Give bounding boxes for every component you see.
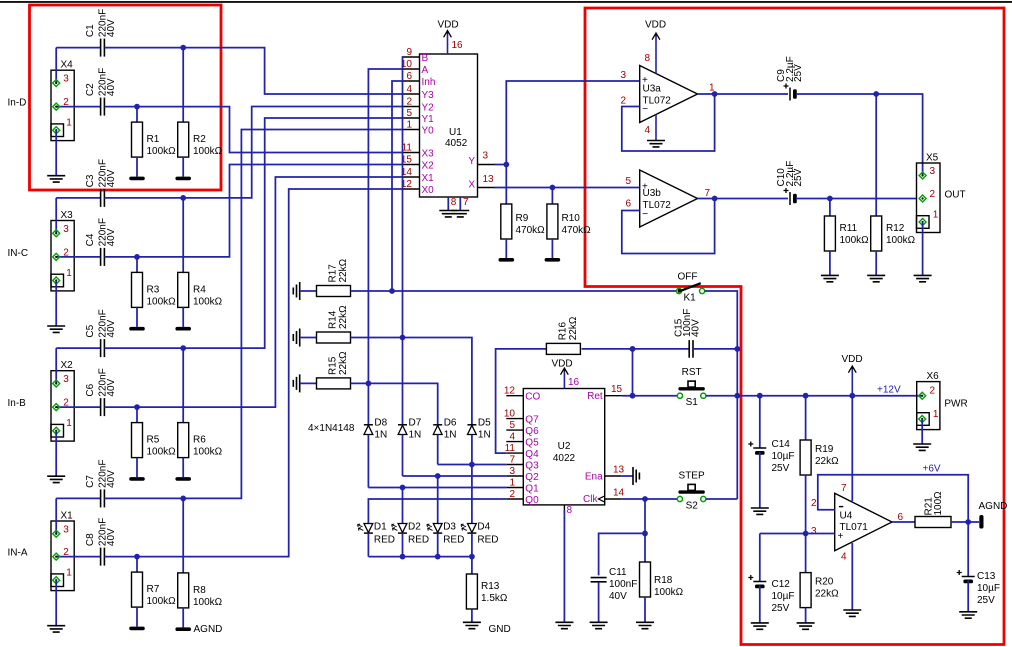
wire S2 right up chain — [706, 498, 737, 500]
wire — [104, 497, 183, 499]
svg-text:X3: X3 — [61, 210, 74, 221]
LED D2 RED — [398, 524, 407, 533]
red highlight polygon (right output + power sections) — [585, 8, 1004, 645]
svg-text:22kΩ: 22kΩ — [338, 351, 349, 375]
svg-text:R9: R9 — [516, 213, 529, 224]
svg-text:TL071: TL071 — [840, 522, 869, 533]
svg-text:Q6: Q6 — [525, 426, 539, 437]
svg-text:C14: C14 — [772, 439, 791, 450]
svg-text:C13: C13 — [977, 571, 996, 582]
resistor R20 22k — [805, 534, 807, 573]
node Rst — [630, 393, 636, 399]
svg-text:D8: D8 — [374, 418, 387, 429]
svg-text:40V: 40V — [106, 378, 117, 396]
svg-text:OFF: OFF — [678, 272, 698, 283]
wire X3 pin1 to ground — [55, 281, 57, 327]
wire Q3 node down to LED D4 — [471, 465, 473, 524]
svg-text:25V: 25V — [977, 595, 995, 606]
svg-text:1N: 1N — [374, 430, 387, 441]
resistor R10 470k — [551, 188, 553, 205]
U1 pin 9 B — [403, 56, 420, 58]
svg-text:In-D: In-D — [8, 98, 27, 109]
U1 pin 11 X3 — [403, 152, 420, 154]
connector X4 (In-D input) — [51, 70, 74, 140]
svg-text:100kΩ: 100kΩ — [193, 296, 223, 307]
wire X3 pin2 row through C4 — [56, 256, 100, 258]
resistor R7 100k — [136, 557, 138, 573]
capacitor C12 10uF 25V — [759, 534, 761, 582]
node Q2/D6 — [435, 473, 441, 479]
svg-text:1: 1 — [66, 568, 72, 579]
wire U3b out to C10 — [715, 198, 788, 200]
svg-text:1N: 1N — [409, 430, 422, 441]
wire down to Rst row — [632, 349, 634, 396]
svg-text:4052: 4052 — [445, 138, 468, 149]
svg-text:VDD: VDD — [842, 354, 863, 365]
svg-text:3: 3 — [930, 166, 936, 177]
svg-text:GND: GND — [489, 624, 511, 635]
U2 pin 3 Q2 — [506, 475, 523, 477]
ground (left) at R15 — [293, 374, 299, 392]
svg-text:2: 2 — [406, 97, 412, 108]
wire top row through C1 — [56, 47, 100, 49]
svg-text:+: + — [642, 75, 648, 86]
svg-text:+: + — [642, 182, 648, 193]
svg-text:100kΩ: 100kΩ — [654, 587, 684, 598]
wire Q2 node down to LED D3 — [437, 476, 439, 524]
svg-text:C12: C12 — [772, 579, 791, 590]
wire IN-C top to U1 Y2 — [183, 107, 403, 198]
wire U1 A down to R15 row — [368, 69, 403, 383]
svg-text:−: − — [642, 104, 648, 115]
svg-text:100kΩ: 100kΩ — [147, 447, 177, 458]
LED D1 RED — [364, 524, 373, 533]
svg-text:Q1: Q1 — [525, 484, 539, 495]
switch K1 (OFF) — [678, 290, 680, 292]
node In-B mid junction — [134, 404, 140, 410]
svg-text:100kΩ: 100kΩ — [840, 235, 870, 246]
svg-text:R19: R19 — [815, 444, 834, 455]
resistor R1 100k — [136, 107, 138, 123]
svg-text:PWR: PWR — [944, 399, 967, 410]
wire X1 pin1 to ground — [55, 580, 57, 626]
svg-text:RED: RED — [443, 535, 464, 546]
wire Y up to U3a input — [506, 81, 639, 165]
wire top row through C5 — [56, 347, 100, 349]
wire — [104, 406, 137, 408]
pushbutton S1 (RST) — [678, 387, 704, 390]
svg-text:CO: CO — [525, 392, 540, 403]
svg-text:U1: U1 — [449, 127, 462, 138]
U2 pin 7 Q3 — [506, 464, 523, 466]
LED D4 RED — [468, 524, 477, 533]
svg-text:IN-C: IN-C — [8, 248, 29, 259]
capacitor C15 100nF 40V — [688, 340, 690, 358]
svg-text:6: 6 — [406, 71, 412, 82]
ground under C13 — [959, 612, 977, 618]
svg-text:R7: R7 — [147, 584, 160, 595]
svg-text:14: 14 — [613, 488, 625, 499]
ground (rotated) at Eno — [633, 467, 639, 485]
svg-text:1: 1 — [509, 478, 515, 489]
svg-text:1: 1 — [66, 118, 72, 129]
node R16/C15 — [630, 346, 636, 352]
svg-text:100kΩ: 100kΩ — [193, 146, 223, 157]
ground under X3 — [47, 326, 65, 332]
svg-text:R15: R15 — [328, 356, 339, 375]
pushbutton S2 (STEP) — [678, 490, 704, 493]
wire Eno to ground — [622, 475, 633, 477]
svg-text:C2: C2 — [85, 83, 96, 96]
U2 pin 10 Q7 — [506, 418, 523, 420]
node Inh — [389, 288, 395, 294]
resistor R8 100k — [182, 498, 184, 573]
ground (bar) under R4 — [175, 327, 191, 331]
wire U1 Inh down to R17 row — [392, 81, 403, 291]
wire +12V down to U4 pin 7 — [851, 396, 853, 501]
node U3a out — [712, 91, 718, 97]
wire D4 to common row — [471, 533, 473, 557]
svg-text:4: 4 — [841, 552, 847, 563]
svg-text:R20: R20 — [815, 577, 834, 588]
U1 pin 14 X1 — [403, 176, 420, 178]
wire — [104, 197, 183, 199]
U1 pin 2 Y2 — [403, 106, 420, 108]
svg-text:C8: C8 — [85, 533, 96, 546]
U1 pin 4 Y3 — [403, 93, 420, 95]
node C9/R12 — [873, 91, 879, 97]
ground under U3a — [647, 141, 665, 147]
svg-text:Q3: Q3 — [525, 461, 539, 472]
resistor R12 100k — [875, 94, 877, 216]
svg-text:C11: C11 — [609, 567, 627, 578]
VDD supply symbol above U2 — [561, 368, 569, 375]
wire Q1 node down to LED D2 — [402, 488, 404, 524]
node IN-A mid junction — [134, 554, 140, 560]
wire X5 pin1 to ground — [922, 222, 924, 275]
svg-text:7: 7 — [705, 188, 711, 199]
resistor R6 100k — [182, 348, 184, 423]
svg-text:100nF: 100nF — [609, 579, 637, 590]
svg-text:R4: R4 — [193, 284, 206, 295]
svg-text:22kΩ: 22kΩ — [568, 316, 579, 340]
connector X4 pins — [53, 80, 60, 87]
wire B node down to D7 — [402, 338, 404, 425]
svg-text:25V: 25V — [772, 463, 790, 474]
ground under U1 pin 7 — [451, 211, 469, 217]
svg-text:D6: D6 — [444, 418, 457, 429]
svg-text:R17: R17 — [328, 264, 339, 283]
wire C10 to X5 pin 2 — [796, 198, 917, 200]
wire LED common row — [368, 556, 472, 558]
svg-text:22kΩ: 22kΩ — [815, 456, 839, 467]
node Q1/D7 — [400, 485, 406, 491]
U1 pin 12 X0 — [403, 188, 420, 190]
svg-text:7: 7 — [463, 197, 469, 208]
node C14 — [757, 393, 763, 399]
svg-text:R1: R1 — [147, 134, 160, 145]
svg-text:R10: R10 — [562, 213, 581, 224]
capacitor C2 220nF 40V — [100, 98, 102, 116]
ground (left) at R17 — [293, 282, 299, 300]
svg-text:C3: C3 — [85, 174, 96, 187]
wire D2 to common row — [402, 533, 404, 557]
svg-text:1: 1 — [66, 418, 72, 429]
svg-text:C1: C1 — [85, 24, 96, 37]
svg-text:X1: X1 — [422, 173, 435, 184]
svg-text:C6: C6 — [85, 383, 96, 396]
svg-text:Y3: Y3 — [422, 90, 435, 101]
svg-text:22kΩ: 22kΩ — [338, 258, 349, 282]
svg-text:OUT: OUT — [945, 190, 966, 201]
svg-text:X0: X0 — [422, 185, 435, 196]
node VDD/+12V — [849, 393, 855, 399]
svg-text:X3: X3 — [422, 149, 435, 160]
node AGND — [965, 519, 971, 525]
svg-text:D7: D7 — [409, 418, 422, 429]
wire IN-C mid to U1 X2 — [137, 165, 403, 257]
ground under C11 — [590, 622, 608, 628]
wire Q4 to R16 — [496, 349, 547, 453]
svg-text:10µF: 10µF — [772, 591, 795, 602]
connector X3 pins — [53, 230, 60, 237]
wire X4 pin3 to top row — [55, 48, 57, 83]
svg-text:STEP: STEP — [679, 471, 705, 482]
U2 pin 12 CO — [506, 395, 523, 397]
resistor R5 100k — [136, 407, 138, 423]
ground under R11 — [821, 275, 839, 281]
svg-text:D1: D1 — [374, 522, 387, 533]
svg-text:1: 1 — [933, 210, 939, 221]
svg-text:3: 3 — [63, 374, 69, 385]
svg-text:D5: D5 — [478, 418, 491, 429]
svg-text:Y0: Y0 — [422, 126, 435, 137]
resistor R16 22k — [546, 343, 580, 354]
svg-text:3: 3 — [63, 74, 69, 85]
svg-text:13: 13 — [483, 174, 495, 185]
ground (bar) under R6 — [175, 477, 191, 481]
svg-text:40V: 40V — [106, 169, 117, 187]
node X — [550, 185, 556, 191]
svg-text:22kΩ: 22kΩ — [338, 305, 349, 329]
wire Q3 row — [438, 464, 507, 466]
node In-D top junction — [180, 45, 186, 51]
U1 pin 13 X output — [478, 187, 495, 189]
capacitor C4 220nF 40V — [100, 248, 102, 266]
svg-text:40V: 40V — [106, 470, 117, 488]
svg-text:R14: R14 — [328, 310, 339, 329]
wire X3 pin3 to top row — [55, 198, 57, 233]
svg-text:40V: 40V — [106, 228, 117, 246]
svg-text:X: X — [468, 180, 475, 191]
svg-text:100Ω: 100Ω — [933, 491, 944, 516]
U3a pin 8 to VDD — [655, 34, 657, 74]
svg-text:7: 7 — [841, 483, 847, 494]
wire D8 anode to Q1 — [367, 435, 369, 488]
wire In-B top to U1 Y1 — [183, 118, 403, 348]
svg-text:C5: C5 — [85, 324, 96, 337]
svg-text:3: 3 — [811, 526, 817, 537]
wire top row through C3 — [56, 197, 100, 199]
op-amp U3b TL072 — [640, 170, 698, 227]
svg-text:Q4: Q4 — [525, 449, 539, 460]
diode D7 1N4148 — [398, 424, 407, 426]
svg-text:−: − — [642, 209, 648, 220]
ground under U1 pin 8 — [439, 211, 457, 217]
red highlight box (top-left input section) — [30, 5, 222, 190]
node A/R15 — [366, 381, 372, 387]
wire — [104, 556, 137, 558]
wire X1 pin3 to top row — [55, 498, 57, 533]
resistor R4 100k — [182, 198, 184, 273]
connector X5 OUT — [917, 163, 941, 233]
wire — [104, 256, 137, 258]
wire R16 to C15 row — [582, 348, 690, 350]
svg-text:1N: 1N — [444, 430, 457, 441]
wire R21 to AGND node — [951, 521, 979, 523]
svg-text:D3: D3 — [443, 522, 456, 533]
svg-text:Y2: Y2 — [422, 103, 435, 114]
ground under R13 — [463, 622, 481, 628]
svg-text:Y: Y — [468, 156, 475, 167]
U1 pin 6 Inh — [403, 80, 420, 82]
ground under R18 — [636, 622, 654, 628]
svg-text:100kΩ: 100kΩ — [193, 597, 223, 608]
svg-text:R6: R6 — [193, 435, 206, 446]
resistor R21 100 ohm — [915, 517, 951, 528]
U2 pin 5 Q6 — [506, 429, 523, 431]
svg-text:RED: RED — [477, 535, 498, 546]
svg-text:R13: R13 — [481, 581, 500, 592]
resistor R19 22k — [805, 396, 807, 440]
svg-text:100kΩ: 100kΩ — [886, 235, 916, 246]
wire U3a output — [698, 93, 715, 95]
ground (bar) under R8 — [175, 627, 191, 631]
svg-text:R8: R8 — [193, 585, 206, 596]
AGND symbol — [979, 515, 983, 529]
svg-text:2: 2 — [509, 489, 515, 500]
connector X6 PWR — [917, 382, 940, 430]
wire Rst row to S1 — [622, 395, 678, 397]
ground (bar) under R9 — [499, 258, 515, 262]
svg-text:Ret: Ret — [587, 391, 603, 402]
wire C15 right to chain — [693, 348, 737, 350]
svg-text:X6: X6 — [927, 371, 940, 382]
U2 pin 14 Clk — [605, 498, 622, 500]
svg-text:8: 8 — [567, 505, 573, 516]
wire In-A mid to U1 X0 — [137, 189, 403, 557]
svg-text:4: 4 — [509, 432, 515, 443]
svg-text:8: 8 — [451, 197, 457, 208]
wire U1 B down to R14 row — [402, 57, 405, 338]
capacitor C7 220nF 40V — [100, 489, 102, 507]
svg-text:AGND: AGND — [194, 624, 223, 635]
wire U3b output — [698, 198, 715, 200]
wire X6 pin1 to ground — [921, 419, 923, 444]
wire D3 to common row — [437, 533, 439, 557]
node divider/U4+ — [803, 531, 809, 537]
wire top row through C7 — [56, 497, 100, 499]
wire U4 pin 4 to ground — [851, 543, 853, 610]
svg-text:U4: U4 — [840, 511, 853, 522]
ground (bar) under R3 — [129, 327, 145, 331]
svg-text:R11: R11 — [840, 223, 858, 234]
wire D5 anode to Q3 — [471, 435, 473, 465]
svg-text:C7: C7 — [85, 475, 96, 488]
capacitor C3 220nF 40V — [100, 189, 102, 207]
svg-text:16: 16 — [568, 377, 580, 388]
node In-D mid junction — [134, 104, 140, 110]
svg-text:A: A — [422, 65, 429, 76]
U1 pin 5 Y1 — [403, 117, 420, 119]
wire — [104, 47, 183, 49]
resistor R9 470k — [505, 165, 507, 205]
ground (bar) under R7 — [129, 627, 145, 631]
U2 pin 16 VDD — [563, 369, 565, 389]
wire R19 to divider node — [805, 475, 807, 534]
svg-text:Q0: Q0 — [525, 495, 539, 506]
ground (bar) under R1 — [129, 177, 145, 181]
svg-text:1N: 1N — [478, 430, 491, 441]
wire U4 output to R21 — [892, 521, 915, 523]
node C10/R11 — [827, 196, 833, 202]
svg-text:X2: X2 — [422, 161, 435, 172]
wire R14 row to D5 — [351, 338, 472, 425]
wire Q1 row — [368, 487, 506, 489]
svg-text:100kΩ: 100kΩ — [147, 296, 177, 307]
svg-text:R5: R5 — [147, 435, 160, 446]
svg-text:X1: X1 — [61, 510, 74, 521]
capacitor C14 10uF 25V — [759, 396, 761, 448]
wire Q0 row — [368, 499, 506, 524]
wire U3a out to C9 — [715, 93, 788, 95]
svg-text:10: 10 — [504, 409, 516, 420]
resistor R14 22k — [300, 337, 317, 339]
op IC U1 4052 analog multiplexer — [420, 54, 478, 197]
U2 pin 4 Q5 — [506, 441, 523, 443]
wire A node down to D8 — [367, 383, 369, 424]
svg-text:13: 13 — [613, 465, 625, 476]
svg-text:4: 4 — [644, 125, 650, 136]
ground under C12 — [751, 623, 769, 629]
capacitor C8 220nF 40V — [100, 548, 102, 566]
LED D3 RED — [433, 524, 442, 533]
node chain/+12V — [734, 393, 740, 399]
svg-text:Q7: Q7 — [525, 415, 539, 426]
svg-text:Q5: Q5 — [525, 438, 539, 449]
svg-text:VDD: VDD — [438, 20, 459, 31]
svg-text:470kΩ: 470kΩ — [516, 225, 546, 236]
svg-text:RED: RED — [408, 535, 429, 546]
svg-text:5: 5 — [509, 420, 515, 431]
svg-text:1: 1 — [66, 268, 72, 279]
U1 pin 16 VDD — [447, 32, 449, 55]
diode D8 1N4148 — [364, 424, 373, 426]
svg-text:Clk: Clk — [583, 494, 598, 505]
wire X4 pin1 to ground — [55, 130, 57, 176]
wire X to U3b input — [552, 187, 639, 189]
ground under X4 — [47, 176, 65, 182]
wire D1 to common row — [367, 533, 369, 557]
wire C9 to X5 pin 3 — [796, 93, 876, 95]
U3a pin 4 to ground — [655, 114, 657, 140]
ground under X6 — [913, 444, 931, 450]
capacitor C13 10uF 25V — [967, 522, 969, 577]
svg-text:VDD: VDD — [645, 20, 666, 31]
wire X4 pin2 row through C2 — [56, 106, 100, 108]
VDD supply symbol above U3a — [652, 33, 660, 40]
node In-B top junction — [180, 345, 186, 351]
